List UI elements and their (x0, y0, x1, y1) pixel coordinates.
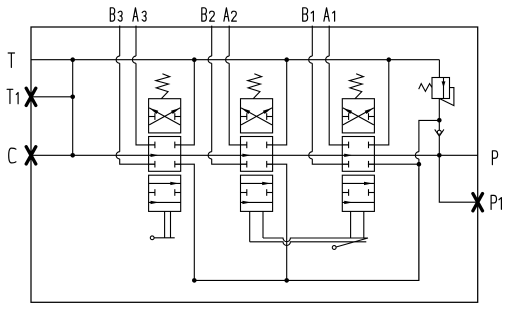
valve V2 top box right blocked port (267, 116, 273, 118)
valve V3 bottom box right blocked port (175, 192, 181, 194)
wire port A3 (136, 26, 155, 145)
relief valve RV flow arrow (443, 78, 445, 99)
valve V2 bottom box upper flow path (241, 182, 273, 184)
valve V3 middle box upper-left blocked port (149, 144, 155, 146)
wire V2 lower-right port to drain (267, 164, 287, 280)
junction bypass at V1 port (417, 162, 422, 167)
hop A1 over T (326, 56, 330, 63)
wire T-T1-C vertical link (72, 60, 74, 156)
wire C / P gallery (31, 154, 478, 156)
port P1 plug (473, 194, 483, 211)
check valve CV1 seat (435, 129, 444, 136)
hop B2 over C (208, 152, 212, 159)
valve V2 top box crossed arrows (241, 108, 272, 125)
check valve CV1 ball (438, 120, 440, 130)
valve V3 neutral flow arrow (151, 154, 160, 157)
wire bypass upper (419, 120, 439, 280)
valve V3 top position box (149, 99, 181, 133)
wire T gallery (31, 59, 439, 61)
junction P gallery (437, 153, 442, 158)
wire port A1 (329, 26, 348, 145)
junction drain left (192, 278, 197, 283)
valve V2 bottom box lower flow path (241, 201, 273, 203)
junction T gallery at V2 (284, 57, 289, 62)
manifold enclosure border (31, 27, 478, 302)
linkage lever pivot (332, 246, 336, 250)
wire port A2 (229, 26, 247, 145)
hop A3 over T (132, 56, 136, 63)
valve V1 top box left blocked port (342, 116, 348, 118)
valve V3 middle position box (149, 137, 181, 172)
hop B1 over T (309, 56, 313, 63)
valve V2 top position box (241, 99, 273, 133)
relief valve RV spring (419, 84, 432, 92)
valve V3 bottom box lower flow path (149, 201, 181, 203)
label B2 (202, 8, 207, 21)
valve V1 middle box lower-right blocked port (369, 163, 375, 165)
valve V3 spring (156, 74, 170, 99)
valve V3 actuator stems (164, 211, 166, 237)
valve V1 top box right blocked port (369, 116, 375, 118)
port C plug (26, 147, 36, 164)
junction T gallery at V1 (387, 57, 392, 62)
wire port B2 (212, 26, 247, 165)
valve V2 middle box upper-right blocked port (267, 144, 273, 146)
valve V1 spring (350, 74, 364, 99)
valve V1 middle box upper-right blocked port (369, 144, 375, 146)
valve V1 actuator stems (350, 211, 352, 238)
wire relief outlet (438, 99, 440, 121)
label B3 (110, 8, 114, 21)
hop B3 over C (116, 152, 120, 159)
label T1 (7, 89, 13, 103)
valve V2 middle box lower-left blocked port (241, 163, 247, 165)
hop B1 over C (309, 152, 313, 159)
wire drain gallery (194, 168, 419, 280)
label A3 (133, 8, 138, 21)
valve V2 middle position box (241, 137, 273, 172)
valve V3 top box right blocked port (175, 116, 181, 118)
linkage lever arm (336, 238, 368, 247)
valve V1 bottom position box (342, 175, 374, 211)
wire P gallery to P1 port (439, 155, 477, 202)
hop A2 over T (226, 56, 230, 63)
valve V2 bottom box right blocked port (267, 192, 273, 194)
junction T gallery at V3 (192, 57, 197, 62)
valve V3 middle box lower-left blocked port (149, 163, 155, 165)
relief valve RV pilot flap (439, 88, 454, 106)
label T (8, 53, 14, 67)
junction C link (70, 153, 75, 158)
valve V1 bottom box left blocked port (342, 192, 348, 194)
hop B3 over T (116, 56, 120, 63)
wire V1 lower-right port to bypass (368, 163, 419, 165)
valve V3 top box crossed arrows (149, 108, 180, 125)
wire T1 stub (31, 96, 73, 98)
hop B2 over T (208, 56, 212, 63)
valve V1 middle box upper-left blocked port (342, 144, 348, 146)
valve V1 neutral flow arrow (344, 154, 353, 157)
linkage upper bar (263, 238, 368, 242)
valve V1 bottom box lower flow path (342, 201, 374, 203)
wire V3 lower-right port to drain (175, 164, 195, 280)
wire V3 upper-right port to T (175, 60, 195, 145)
valve V3 middle box upper-right blocked port (175, 144, 181, 146)
valve V3 bottom position box (149, 175, 181, 211)
valve V2 neutral flow arrow (242, 154, 251, 157)
valve V2 top box left blocked port (241, 116, 247, 118)
label P (492, 151, 497, 165)
valve V3 bottom box left blocked port (149, 192, 155, 194)
hop bypass over C (415, 152, 419, 159)
junction relief outlet (437, 118, 442, 123)
valve V1 middle box lower-left blocked port (342, 163, 348, 165)
valve V3 bottom box upper flow path (149, 182, 181, 184)
valve V2 bottom box left blocked port (241, 192, 247, 194)
port T1 plug (26, 88, 36, 105)
wire V1 upper-right port to T (369, 60, 389, 145)
relief valve RV body (432, 78, 450, 99)
junction T link (70, 57, 75, 62)
label P1 (491, 195, 496, 209)
valve V3 top box left blocked port (149, 116, 155, 118)
valve V1 middle position box (342, 137, 374, 172)
label A2 (224, 8, 229, 21)
valve V3 lever (154, 237, 175, 239)
valve V2 middle box lower-right blocked port (267, 163, 273, 165)
valve V1 top box crossed arrows (343, 108, 374, 125)
junction T1 link (70, 95, 75, 100)
valve V1 top position box (342, 99, 374, 133)
wire T gallery to relief inlet (438, 60, 440, 78)
valve V2 middle box upper-left blocked port (241, 144, 247, 146)
valve V2 spring (248, 74, 262, 99)
label A1 (324, 8, 329, 21)
valve V2 bottom position box (241, 175, 273, 211)
valve V1 bottom box right blocked port (369, 192, 375, 194)
valve V1 bottom box upper flow path (342, 182, 374, 184)
valve V2 actuator stems (249, 211, 251, 241)
wire V2 upper-right port to T (267, 60, 287, 145)
label B1 (303, 8, 308, 21)
wire check valve to P gallery (438, 136, 440, 155)
junction drain mid (284, 278, 289, 283)
linkage lower bar (250, 242, 367, 246)
valve V3 lever pivot (150, 236, 154, 240)
label C (9, 148, 16, 163)
wire port B3 (120, 26, 155, 165)
wire port B1 (312, 26, 348, 165)
valve V3 middle box lower-right blocked port (175, 163, 181, 165)
